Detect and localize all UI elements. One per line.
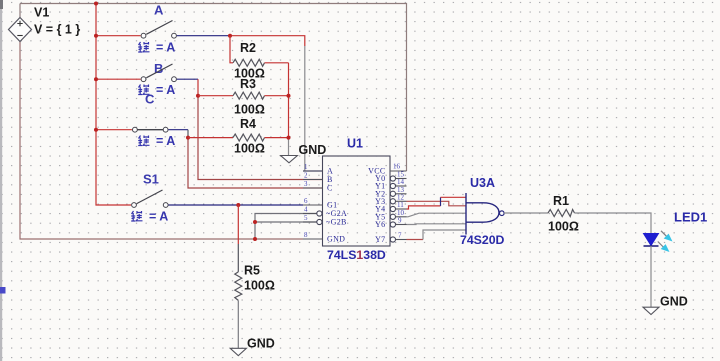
svg-text:R3: R3	[240, 77, 256, 91]
svg-text:GND: GND	[299, 143, 327, 157]
wire: Y3 to gate input 2	[407, 201, 467, 206]
svg-text:B: B	[154, 61, 163, 76]
wire: junction down to R5	[237, 205, 239, 244]
node C/R4 junction	[186, 136, 190, 140]
svg-text:16: 16	[393, 163, 401, 171]
switch A	[94, 3, 230, 55]
svg-text:Y7: Y7	[375, 235, 385, 244]
wire switch A to node	[177, 35, 230, 37]
node R2/R3 junction	[287, 94, 291, 98]
wire from bus to switch A	[96, 35, 141, 37]
svg-text:C: C	[327, 184, 333, 193]
svg-text:V = { 1 }: V = { 1 }	[34, 23, 80, 37]
op IC U1 74LS138D	[303, 137, 407, 263]
resistor R4	[188, 117, 289, 156]
wire: C chain down to pin3	[187, 130, 189, 138]
wire: V1 top stub	[19, 4, 21, 18]
svg-text:R5: R5	[244, 264, 260, 278]
svg-text:Y6: Y6	[375, 220, 385, 229]
svg-text:4: 4	[304, 206, 308, 214]
svg-text:3: 3	[304, 180, 308, 188]
wire: A chain vertical to pin 1	[304, 46, 306, 171]
gate U3A 74S20D	[460, 176, 505, 247]
wire: Y5 to gate input 3	[407, 213, 467, 217]
svg-text:7: 7	[398, 232, 402, 240]
svg-text:100Ω: 100Ω	[244, 279, 275, 293]
svg-text:~G2B: ~G2B	[326, 218, 347, 227]
svg-text:100Ω: 100Ω	[548, 220, 579, 234]
wire: G2A / G2B enable loop	[255, 214, 317, 240]
window left border artifact	[0, 0, 2, 361]
svg-text:100Ω: 100Ω	[234, 142, 265, 156]
wire: R5 to GND	[237, 300, 239, 348]
wire: Y7 to gate input 5	[407, 239, 424, 241]
wire: red bus vertical from top loop to S1	[96, 4, 131, 206]
svg-text:C: C	[145, 92, 155, 107]
node junction top bus	[94, 2, 98, 6]
svg-text:GND: GND	[327, 235, 345, 244]
svg-text:= A: = A	[156, 41, 175, 55]
node A/R2 junction	[228, 34, 232, 38]
svg-text:S1: S1	[143, 172, 159, 187]
svg-text:LED1: LED1	[674, 210, 707, 225]
right pin leads with bubbles	[390, 170, 407, 172]
wire: gate output to R1	[504, 212, 548, 214]
svg-text:11: 11	[397, 201, 404, 209]
node GND row junction	[253, 237, 257, 241]
svg-text:1: 1	[304, 163, 308, 171]
svg-text:V1: V1	[34, 6, 49, 20]
svg-text:6: 6	[304, 197, 308, 205]
wire: Y6 to gate input 4	[407, 223, 467, 226]
node G2B junction	[253, 220, 257, 224]
svg-text:R4: R4	[240, 117, 256, 131]
wire: resistor common right vertical to GND	[288, 63, 290, 138]
svg-text:2: 2	[304, 172, 308, 180]
svg-text:= A: = A	[156, 83, 175, 97]
svg-text:GND: GND	[660, 295, 688, 309]
svg-text:9: 9	[398, 217, 402, 225]
svg-text:U3A: U3A	[470, 176, 495, 190]
ground (LED)	[643, 295, 688, 315]
svg-text:14: 14	[397, 178, 405, 186]
left pin numbers	[304, 163, 308, 239]
svg-text:8: 8	[304, 231, 308, 239]
svg-text:= A: = A	[149, 210, 168, 224]
svg-text:5: 5	[304, 214, 308, 222]
right pin numbers	[393, 163, 405, 240]
resistor R2	[230, 36, 289, 81]
resistor R3	[198, 77, 289, 117]
internal labels	[326, 167, 386, 245]
resistor R5	[235, 264, 275, 301]
switch S1	[131, 172, 303, 224]
svg-text:74LS138D: 74LS138D	[327, 248, 386, 262]
svg-text:R2: R2	[240, 41, 256, 55]
wire: B chain down to pin2	[197, 79, 199, 96]
wire: into pin 1	[303, 170, 323, 172]
node S1/G1/R5 junction	[236, 203, 240, 207]
left pin leads	[303, 170, 323, 172]
resistor R1	[548, 194, 579, 234]
LED1	[644, 210, 708, 253]
ground (resistors)	[281, 143, 327, 163]
node B/R3 junction	[196, 94, 200, 98]
wire S1 to G1 pin	[169, 204, 304, 206]
ground (R5)	[230, 337, 275, 356]
wire: R1 to LED1	[575, 213, 652, 234]
svg-text:R1: R1	[553, 194, 569, 208]
node R3/R4 junction	[287, 136, 291, 140]
svg-text:= A: = A	[156, 134, 175, 148]
voltage source V1	[9, 6, 81, 42]
switch C	[94, 92, 188, 149]
wire: Y4 to gate input 1	[407, 206, 441, 209]
switch B	[94, 61, 198, 97]
blue marker on left border	[0, 287, 6, 294]
wire: node A to R2 and pin1	[230, 36, 305, 46]
wire: top loop V1 to U1 VCC	[20, 4, 407, 172]
wire: LED1 to GND	[650, 246, 652, 307]
svg-text:U1: U1	[347, 137, 363, 151]
svg-text:A: A	[154, 3, 164, 18]
svg-text:100Ω: 100Ω	[234, 103, 265, 117]
svg-text:74S20D: 74S20D	[460, 233, 505, 247]
svg-text:GND: GND	[247, 337, 275, 351]
wire: V1 bottom to GND row	[20, 42, 303, 240]
